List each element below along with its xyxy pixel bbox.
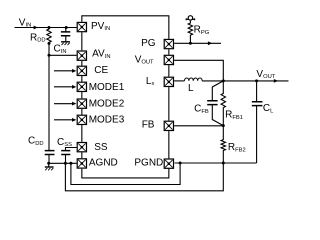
wire FB — [174, 125, 223, 127]
wire VIN rail — [15, 27, 77, 29]
resistor R_DD — [47, 28, 51, 43]
svg-text:CE: CE — [94, 65, 108, 76]
junction CIN top — [65, 26, 68, 29]
wire ground loop B — [71, 163, 180, 185]
wire analog ground rail — [49, 162, 77, 164]
pin SS — [77, 143, 86, 152]
svg-text:MODE3: MODE3 — [89, 115, 125, 126]
junction FB node — [222, 124, 225, 127]
junction output node — [222, 79, 225, 82]
arrowhead VIN direction — [34, 26, 38, 30]
wire CFB bottom lead — [212, 105, 223, 126]
wire MODE3 stub — [54, 119, 73, 121]
svg-text:FB: FB — [142, 120, 155, 131]
pin CE — [77, 66, 86, 75]
arrowhead VOUT direction — [274, 79, 278, 83]
svg-text:MODE2: MODE2 — [89, 98, 125, 109]
wire MODE1-MODE2 — [81, 92, 83, 98]
wire CDD gnd stub — [48, 163, 50, 167]
svg-text:L: L — [188, 83, 194, 94]
resistor R_FB2 — [221, 126, 225, 163]
capacitor C_DD — [45, 151, 55, 164]
wire MODE1 stub — [54, 86, 73, 88]
pin Lx — [164, 77, 173, 86]
svg-text:PG: PG — [141, 38, 156, 49]
svg-text:SS: SS — [94, 142, 108, 153]
resistor R_FB1 — [221, 81, 225, 126]
junction RPG bottom — [189, 42, 192, 45]
arrowhead PG direction — [208, 41, 212, 45]
junction loopB ground — [69, 162, 72, 165]
wire CE-MODE1 — [81, 76, 83, 82]
junction CL top — [255, 79, 258, 82]
arrowhead MODE3 — [72, 118, 76, 122]
pin MODE1 — [77, 82, 86, 91]
wire FB-PGND — [168, 131, 170, 158]
arrowhead CE — [72, 69, 76, 73]
wire VOUT rail — [223, 80, 288, 82]
inductor L — [185, 78, 203, 81]
capacitor C_L — [252, 81, 263, 163]
wire MODE2-MODE3 — [81, 109, 83, 115]
wire ground loop A — [82, 169, 169, 178]
junction RFB2 bottom — [222, 162, 225, 165]
wire Lx-FB — [168, 87, 170, 121]
wire Lx to L — [174, 80, 184, 82]
resistor R_PG — [188, 21, 192, 44]
pin MODE3 — [77, 115, 86, 124]
arrowhead MODE1 — [72, 85, 76, 89]
ground under CIN — [61, 42, 70, 45]
junction AVIN branch — [48, 54, 51, 57]
wire L to output node — [202, 80, 223, 82]
capacitor C_SS — [61, 151, 70, 164]
wire MODE3-SS — [81, 125, 83, 142]
pin PVIN — [77, 22, 86, 31]
wire PGND rail — [175, 162, 257, 164]
wire ground loop C — [65, 163, 223, 191]
wire CFB top lead — [212, 81, 223, 100]
pin PG — [164, 39, 173, 48]
wire AVIN feed — [49, 54, 77, 56]
pin VOUT — [164, 55, 173, 64]
supply symbol for RPG — [186, 16, 196, 21]
wire SS feed — [66, 148, 77, 151]
wire VOUT-Lx — [168, 65, 170, 76]
wire PG-VOUT — [168, 49, 170, 54]
arrowhead MODE2 — [72, 102, 76, 106]
svg-text:MODE1: MODE1 — [89, 82, 125, 93]
ground under CDD — [45, 167, 54, 170]
capacitor C_FB — [207, 101, 217, 105]
wire CE stub — [54, 70, 73, 72]
wire RDD to AVIN rail — [48, 42, 50, 150]
pin FB — [164, 121, 173, 130]
wire SS-AGND — [81, 152, 83, 158]
wire AVIN-CE — [81, 61, 83, 66]
wire MODE2 stub — [54, 103, 73, 105]
wire PVIN-AVIN — [81, 32, 83, 50]
svg-text:PGND: PGND — [134, 158, 163, 169]
wire VOUT branch — [174, 60, 223, 81]
svg-text:AGND: AGND — [89, 158, 118, 169]
junction CSS ground — [64, 162, 67, 165]
junction RDD top — [48, 26, 51, 29]
wire top PVIN to PG — [82, 16, 169, 39]
junction CDD ground — [47, 162, 50, 165]
capacitor C_IN — [61, 28, 70, 42]
wire PG rail — [174, 42, 221, 44]
pin PGND — [164, 159, 173, 168]
pin AVIN — [77, 51, 86, 60]
junction loopB right — [179, 162, 182, 165]
pin MODE2 — [77, 99, 86, 108]
junction RDD bottom — [48, 42, 51, 45]
pin AGND — [77, 159, 86, 168]
